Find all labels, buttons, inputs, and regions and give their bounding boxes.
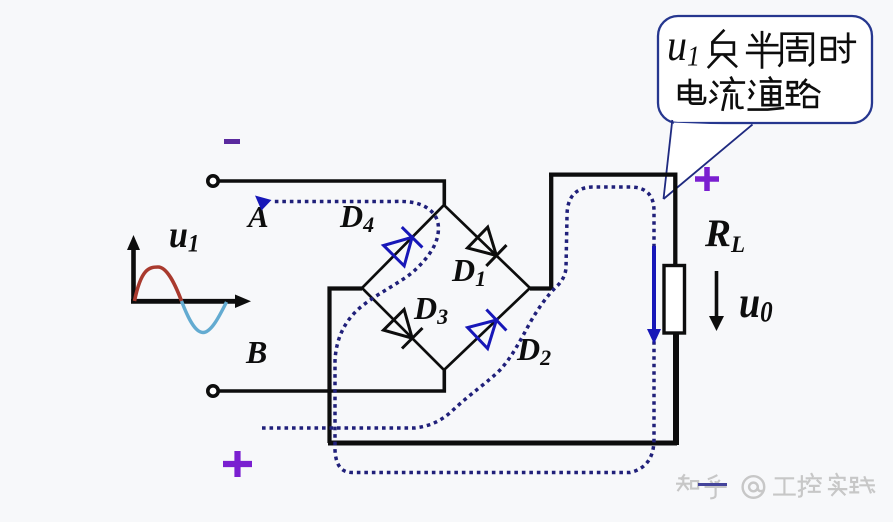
char 负 — [709, 31, 736, 67]
load resistor RL body — [664, 266, 685, 334]
callout bubble — [658, 16, 872, 123]
wire: top from terminal A to bridge — [219, 181, 444, 205]
char 时 — [822, 34, 855, 62]
char 践 — [850, 477, 874, 492]
output voltage arrow u0 — [709, 271, 724, 331]
char 半 — [747, 32, 780, 67]
plus sign (top right, purple) — [695, 167, 719, 191]
char 路 — [787, 80, 819, 107]
wire: left vertex to left rail — [330, 289, 363, 444]
wire: load bottom (thick) — [673, 333, 679, 445]
svg-text:B: B — [245, 334, 267, 370]
current direction arrow through load (blue, downward) — [647, 246, 661, 344]
callout tail — [664, 123, 750, 198]
char @ — [743, 476, 765, 498]
waveform horizontal axis — [131, 295, 251, 309]
terminal A circle — [208, 176, 218, 186]
char 电 — [679, 80, 705, 104]
plus sign (bottom left, purple) — [223, 451, 252, 477]
diode D3 (black, lower-left edge) — [384, 310, 423, 349]
diode D2 (blue, lower-right edge) — [468, 310, 507, 349]
char 乎 — [706, 476, 726, 499]
char 通 — [749, 78, 783, 110]
callout chinese text line 2: 电流通路 — [679, 78, 819, 110]
wire: bottom from terminal B to bridge — [219, 370, 444, 391]
wire: bottom rail — [328, 441, 677, 446]
waveform vertical axis — [127, 235, 140, 302]
bridge diamond edges — [362, 205, 530, 370]
callout chinese text line 1: 负半周时 — [709, 31, 855, 68]
dotted current path (u1 negative half cycle) — [262, 187, 654, 473]
char 知 — [677, 475, 698, 490]
minus sign (top left, purple) — [224, 139, 240, 144]
diode D4 (blue, upper-left edge) — [384, 227, 423, 266]
waveform u1 positive half (red) — [135, 267, 182, 301]
watermark 知乎 @工控实践 — [677, 474, 874, 498]
diode D1 (black, upper-right edge) — [468, 227, 507, 266]
char 周 — [779, 34, 812, 66]
wire: right vertex to top-right loop — [530, 175, 675, 290]
char 流 — [710, 78, 743, 110]
char 实 — [829, 474, 846, 495]
waveform u1 negative half (light blue) — [182, 301, 227, 333]
current direction arrow at node A — [255, 196, 272, 211]
watermark blue dash — [698, 483, 727, 486]
char 控 — [799, 474, 821, 497]
char 工 — [774, 478, 795, 494]
terminal B circle — [208, 386, 218, 396]
